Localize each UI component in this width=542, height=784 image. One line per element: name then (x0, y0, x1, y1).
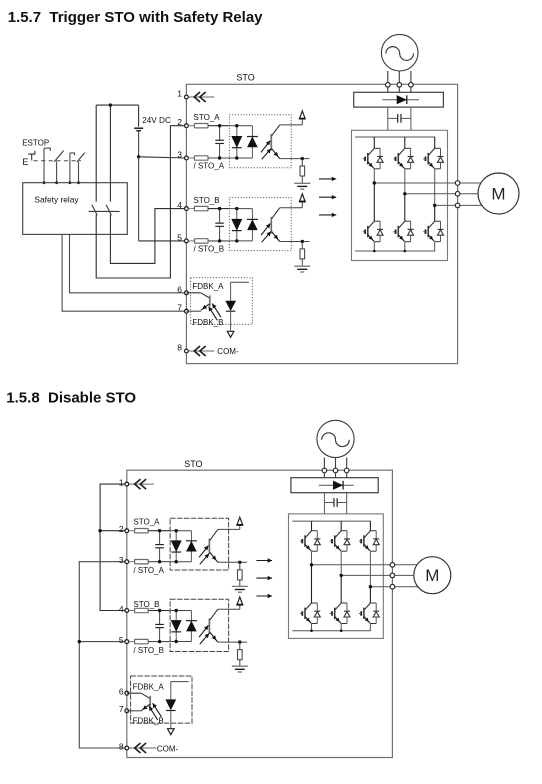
IGBT Q4 low-side phase U (363, 221, 383, 242)
optocoupler U2 STO_B d2 emitter wire (218, 640, 247, 643)
capacitor STO_B filter d2 (155, 609, 164, 644)
optocoupler U1 STO_A LED D2 (antiparallel) (247, 126, 258, 158)
optocoupler U1 STO_A d2 LED D1 (171, 529, 182, 563)
svg-text:8: 8 (119, 741, 124, 751)
pin 3 (177, 150, 188, 160)
junction phase U (310, 563, 313, 566)
svg-text:STO_A: STO_A (133, 518, 160, 527)
pin 2 diagram 2 (119, 524, 129, 534)
junction phase V (403, 192, 406, 195)
ESTOP mechanical link (dashed) (34, 160, 82, 162)
svg-text:M: M (425, 566, 439, 585)
optocoupler U1 STO_A ground (294, 183, 310, 189)
resistor STO_A input (194, 124, 208, 128)
wire jumper pin3-pin5-pin8 rail (79, 562, 127, 748)
wire relay feedback to pin 6 (70, 234, 187, 292)
pin 6 diagram 2 (119, 687, 129, 697)
svg-text:COM-: COM- (217, 347, 239, 356)
optocoupler U1 package d2 (170, 518, 229, 570)
optocoupler U1 STO_A d2 LED D2 (antiparallel) (186, 531, 197, 562)
optocoupler U1 STO_A pull-down resistor (300, 159, 305, 184)
IGBT Q3 high-side phase W (423, 137, 443, 169)
svg-text:7: 7 (119, 704, 124, 714)
svg-text:/ STO_B: / STO_B (133, 646, 164, 655)
wire Q6 emitter to DC- bus (434, 242, 436, 251)
pin 3 diagram 2 (119, 555, 129, 565)
optocoupler U2 STO_B d2 internal supply arrow (237, 597, 243, 605)
wire phase V node (405, 169, 458, 221)
IGBT Q1 high-side phase U (300, 521, 320, 551)
optocoupler U1 STO_A phototransistor (271, 125, 279, 159)
svg-text:24V DC: 24V DC (142, 116, 171, 125)
svg-text:COM-: COM- (157, 745, 179, 754)
wire pin5 to resistor d2 (129, 641, 135, 643)
optocoupler U1 STO_A light arrows (261, 141, 271, 160)
optocoupler U2 STO_B d2 light arrows (199, 625, 209, 644)
AC input terminals (386, 83, 414, 88)
svg-text:/ STO_A: / STO_A (133, 566, 164, 575)
optocoupler U2 STO_B d2 phototransistor (209, 609, 217, 642)
pin 5 (177, 232, 188, 242)
svg-text:FDBK_A: FDBK_A (133, 683, 165, 692)
optocoupler U1 STO_A d2 collector wire to supply arrow (218, 524, 240, 529)
feedback output open arrow d2 (168, 729, 175, 735)
wire Q4 emitter to DC- bus (373, 242, 375, 251)
svg-text:STO: STO (184, 459, 202, 469)
resistor STO_B input d2 (135, 608, 149, 612)
IGBT Q2 high-side phase V (393, 137, 413, 169)
optocoupler U1 STO_A d2 internal supply arrow (237, 517, 243, 525)
IGBT Q4 low-side phase U (300, 603, 320, 624)
pin 1 (177, 89, 188, 99)
svg-text:/ STO_B: / STO_B (194, 245, 225, 254)
svg-text:7: 7 (177, 303, 182, 313)
junction jumper rail pin2 (98, 529, 101, 532)
svg-text:FDBK_B: FDBK_B (133, 716, 164, 725)
AC source (381, 34, 418, 71)
svg-text:Safety relay: Safety relay (34, 195, 79, 205)
svg-text:FDBK_B: FDBK_B (192, 318, 223, 327)
optocoupler U1 STO_A anode wire (229, 126, 252, 158)
pin 5 diagram 2 (119, 635, 129, 645)
svg-text:3: 3 (177, 150, 182, 160)
pin 4 (177, 200, 188, 210)
wire pin2 to opto A (208, 125, 229, 127)
optocoupler U2 STO_B internal supply arrow (300, 194, 306, 202)
optocoupler U1 package (dotted) (229, 115, 291, 168)
feedback optocoupler package d2 (131, 676, 192, 723)
optocoupler U2 STO_B ground (294, 266, 310, 272)
svg-text:1.5.8 Disable STO: 1.5.8 Disable STO (6, 390, 136, 407)
wire pin5 to resistor (188, 240, 194, 242)
svg-text:5: 5 (177, 232, 182, 242)
motor M d2 (395, 557, 451, 594)
gate drive signal arrow 3 (319, 213, 336, 217)
optocoupler U2 package d2 (170, 599, 229, 651)
IGBT inverter block outline (289, 514, 384, 639)
pin 7 diagram 2 (119, 704, 129, 714)
optocoupler U2 STO_B collector wire to supply arrow (280, 201, 303, 208)
optocoupler U2 STO_B LED D1 (231, 207, 242, 243)
junction phase V (340, 574, 343, 577)
DC+ bus wire (355, 136, 435, 138)
svg-text:ESTOP: ESTOP (22, 138, 49, 147)
wire pin4 to resistor (188, 208, 194, 210)
ESTOP contact 2 (70, 153, 85, 183)
resistor STO_A input d2 (135, 529, 149, 533)
feedback light arrows (209, 304, 221, 321)
wire 24V rail (96, 104, 138, 106)
optocoupler U1 STO_A internal supply arrow (300, 111, 306, 119)
svg-text:/ STO_A: / STO_A (194, 162, 225, 171)
svg-text:4: 4 (177, 200, 182, 210)
svg-text:2: 2 (119, 524, 124, 534)
motor phase terminals (455, 181, 460, 208)
wire pin3 to opto A d2 (148, 561, 170, 563)
optocoupler U2 STO_B phototransistor (271, 208, 279, 242)
feedback phototransistor d2 (127, 693, 150, 711)
relay contact 2 (K2) (106, 105, 111, 215)
IGBT Q3 high-side phase W (359, 521, 379, 551)
rectifier block (354, 92, 444, 107)
wire pin5 to opto B (208, 240, 229, 242)
wire phase W node (435, 169, 458, 221)
optocoupler U1 STO_A d2 pull-down resistor (238, 562, 243, 586)
svg-text:3: 3 (119, 555, 124, 565)
ESTOP terminal dots on relay box (43, 181, 80, 184)
DC- bus wire (292, 630, 370, 632)
gate drive signal arrow 2 d2 (256, 576, 272, 580)
optocoupler U1 STO_A d2 emitter wire (218, 561, 247, 564)
IGBT inverter block outline (352, 130, 448, 260)
capacitor STO_A filter d2 (155, 529, 164, 563)
optocoupler U2 STO_B d2 LED D1 (171, 609, 182, 643)
svg-text:STO_B: STO_B (133, 600, 159, 609)
resistor /STO_B input (194, 239, 208, 243)
rectifier block d2 (291, 478, 378, 493)
drive enclosure box (STO) (186, 84, 457, 363)
DC link with capacitor (388, 107, 411, 130)
junction phase W (433, 204, 436, 207)
optocoupler U1 STO_A d2 anode wire (170, 531, 191, 562)
DC- bus wire (355, 250, 435, 252)
junction 24V rail / contact 2 (109, 103, 112, 106)
motor M (460, 173, 519, 214)
optocoupler U2 STO_B d2 pull-down resistor (238, 642, 243, 666)
AC input wires d2 (324, 458, 346, 478)
junction DC- bus phase V (404, 250, 407, 253)
wire phase U node (374, 169, 457, 221)
pin 1 diagram 2 (119, 477, 129, 487)
wire pin2 to opto A d2 (148, 530, 170, 532)
svg-text:6: 6 (177, 284, 182, 294)
resistor /STO_A input d2 (135, 560, 149, 564)
feedback LED d2 (165, 682, 188, 729)
junction phase W (369, 585, 372, 588)
feedback light arrows d2 (149, 703, 161, 720)
junction battery negative / pin3 wire (137, 155, 140, 158)
IGBT Q2 high-side phase V (330, 521, 350, 551)
feedback phototransistor (186, 293, 209, 311)
resistor /STO_B input d2 (135, 639, 149, 643)
AC source d2 (317, 420, 354, 457)
svg-text:STO_B: STO_B (194, 196, 220, 205)
wire pin5 to opto B d2 (148, 641, 170, 643)
wire pin4 to resistor d2 (129, 610, 135, 612)
battery 24V DC (134, 105, 143, 157)
relay contacts mechanical link bar (89, 210, 120, 212)
svg-text:E: E (22, 157, 28, 167)
svg-text:2: 2 (177, 117, 182, 127)
svg-text:M: M (491, 185, 505, 204)
wire pin4 to opto B (208, 208, 229, 210)
resistor /STO_A input (194, 156, 208, 160)
junction DC- bus phase U (310, 629, 313, 632)
wire jumper pin1-pin2-pin4 rail (100, 484, 127, 610)
wire phase U node (312, 551, 393, 603)
optocoupler U2 STO_B LED D2 (antiparallel) (247, 209, 258, 241)
svg-text:1.5.7 Trigger STO with Safety: 1.5.7 Trigger STO with Safety Relay (8, 9, 263, 26)
wire Q5 emitter to DC- bus (340, 624, 342, 631)
wire pin4 to opto B d2 (148, 610, 170, 612)
optocoupler U2 STO_B anode wire (229, 209, 252, 241)
wire pin2 to resistor d2 (129, 530, 135, 532)
input arrow pin 1 (189, 92, 215, 102)
wire relay contact 2 to pin 4 (110, 209, 186, 264)
pin 2 (177, 117, 188, 127)
svg-text:5: 5 (119, 635, 124, 645)
input arrow pin 8 COM- d2 (129, 743, 157, 753)
junction phase U (373, 181, 376, 184)
optocoupler U2 STO_B emitter wire (280, 240, 310, 243)
wire battery junction to pin 3 (139, 157, 187, 158)
drive enclosure box (STO) diagram 2 (127, 470, 393, 757)
optocoupler U2 package (dotted) (229, 198, 291, 251)
wire battery negative to pin 5 (139, 157, 187, 241)
pin 4 diagram 2 (119, 604, 129, 614)
capacitor STO_A filter (215, 124, 224, 160)
ESTOP actuator symbol (22, 151, 35, 167)
wire Q5 emitter to DC- bus (404, 242, 406, 251)
wire phase V node (341, 551, 392, 603)
junction jumper rail pin5 (78, 640, 81, 643)
DC link with capacitor d2 (324, 493, 346, 514)
wire pin3 to opto A (208, 157, 229, 159)
AC input wires (388, 71, 411, 92)
pin 7 (177, 303, 188, 313)
svg-text:4: 4 (119, 604, 124, 614)
wire Q6 emitter to DC- bus (369, 624, 371, 631)
wire pin3 to resistor d2 (129, 561, 135, 563)
optocoupler U2 STO_B d2 anode wire (170, 611, 191, 642)
motor phase terminals (390, 563, 395, 590)
input arrow pin 8 COM- (189, 346, 215, 356)
optocoupler U1 STO_A emitter wire (280, 157, 310, 160)
svg-text:1: 1 (177, 89, 182, 99)
resistor STO_B input (194, 206, 208, 210)
input arrow pin 1 diagram 2 (129, 479, 154, 489)
relay contact 1 (K1) (92, 105, 97, 215)
gate drive signal arrow 1 (319, 177, 336, 181)
svg-text:FDBK_A: FDBK_A (192, 282, 224, 291)
wire relay contact 1 to pin 2 (96, 126, 186, 278)
pin 8 (177, 343, 188, 353)
optocoupler U2 STO_B pull-down resistor (300, 242, 305, 267)
svg-text:6: 6 (119, 687, 124, 697)
optocoupler U1 STO_A d2 phototransistor (209, 529, 217, 562)
IGBT Q6 low-side phase W (423, 221, 443, 242)
DC+ bus wire (292, 520, 370, 522)
optocoupler U2 STO_B d2 collector wire to supply arrow (218, 604, 240, 609)
pin 6 (177, 284, 188, 294)
junction DC- bus phase V (340, 629, 343, 632)
wire Q4 emitter to DC- bus (311, 624, 313, 631)
svg-text:STO: STO (236, 73, 254, 83)
IGBT Q5 low-side phase V (393, 221, 413, 242)
wire pin2 to resistor (188, 125, 194, 127)
gate drive signal arrow 2 (319, 195, 336, 199)
gate drive signal arrow 3 d2 (256, 594, 272, 598)
svg-text:STO_A: STO_A (194, 113, 221, 122)
capacitor STO_B filter (215, 207, 224, 243)
optocoupler U2 STO_B light arrows (261, 224, 271, 243)
optocoupler U2 STO_B d2 ground (232, 666, 248, 672)
ESTOP contact 1 (44, 148, 64, 183)
wire relay feedback to pin 7 (62, 234, 186, 311)
feedback LED (225, 282, 249, 330)
AC input terminals d2 (322, 468, 349, 473)
gate drive signal arrow 1 d2 (256, 558, 272, 562)
wire pin3 to resistor (188, 157, 194, 159)
optocoupler U1 STO_A d2 light arrows (199, 546, 209, 565)
svg-text:1: 1 (119, 477, 124, 487)
pin 8 diagram 2 (119, 741, 129, 751)
safety relay box (23, 183, 128, 235)
feedback optocoupler package (dotted) (191, 278, 253, 325)
wire phase W node (370, 551, 392, 603)
optocoupler U1 STO_A LED D1 (231, 124, 242, 160)
optocoupler U1 STO_A d2 ground (232, 586, 248, 592)
optocoupler U2 STO_B d2 LED D2 (antiparallel) (186, 611, 197, 642)
feedback output open arrow (227, 331, 234, 337)
IGBT Q5 low-side phase V (330, 603, 350, 624)
optocoupler U1 STO_A collector wire to supply arrow (280, 118, 303, 125)
IGBT Q1 high-side phase U (363, 137, 383, 169)
svg-text:8: 8 (177, 343, 182, 353)
IGBT Q6 low-side phase W (359, 603, 379, 624)
junction DC- bus phase U (373, 250, 376, 253)
